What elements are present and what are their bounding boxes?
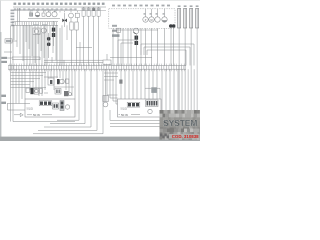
svg-text:5Q(2): 5Q(2) xyxy=(27,106,34,110)
svg-text:50 W: 50 W xyxy=(33,113,40,117)
svg-text:5Q(2): 5Q(2) xyxy=(121,106,128,110)
svg-text:M: M xyxy=(151,19,153,22)
svg-text:SYSTEM: SYSTEM xyxy=(163,118,197,128)
svg-text:COD. 310838: COD. 310838 xyxy=(172,134,199,139)
svg-text:50 W: 50 W xyxy=(121,113,128,117)
